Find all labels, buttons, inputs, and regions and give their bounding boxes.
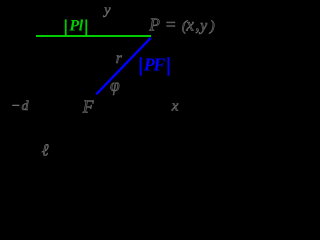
svg-text:−d: −d: [11, 99, 30, 114]
directrix line l (black, invisible on black): [35, 10, 37, 132]
angle arc phi at F: [106, 85, 110, 95]
y-axis: [95, 4, 97, 95]
svg-text:r: r: [116, 50, 123, 67]
green label |Pl| right bar: [85, 19, 87, 37]
green segment |Pl| from directrix to P: [36, 35, 151, 37]
blue label |PF| right bar: [168, 57, 170, 76]
svg-text:ℓ: ℓ: [42, 140, 49, 159]
svg-text:PF: PF: [143, 55, 166, 75]
green label |Pl| left bar: [65, 19, 67, 37]
svg-text:φ: φ: [110, 75, 120, 95]
svg-text:F: F: [82, 97, 95, 117]
blue label |PF| left bar: [140, 57, 142, 76]
blue segment |PF| from F to P: [96, 38, 151, 95]
svg-text:y: y: [102, 3, 111, 18]
svg-text:x: x: [171, 99, 179, 115]
svg-text:Pl: Pl: [68, 17, 83, 34]
x-axis: [6, 94, 214, 96]
